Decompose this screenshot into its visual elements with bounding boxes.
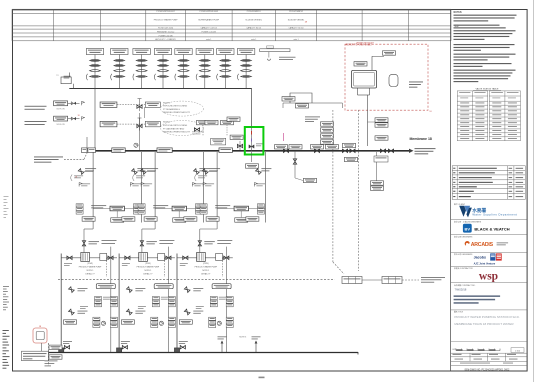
Arcadis symbol bbox=[465, 241, 470, 246]
diagonal valve U2R bbox=[194, 169, 200, 175]
WSD logo mark bbox=[459, 206, 472, 218]
feed label text block 1 (polishing water supply) bbox=[25, 105, 47, 108]
on-bus junction box A0 bbox=[82, 148, 88, 153]
strainer bracket T4 bbox=[154, 74, 155, 80]
diagonal valve U3R bbox=[256, 169, 262, 175]
riser tag L3 bbox=[204, 240, 215, 243]
svg-text:BV: BV bbox=[465, 227, 471, 232]
strainer bracket T2 bbox=[111, 74, 112, 80]
membrane tank outer bbox=[352, 70, 377, 88]
red tick in green box bbox=[251, 131, 253, 135]
bottom valve group 3 bbox=[180, 346, 185, 349]
membrane leg pipe bbox=[367, 95, 369, 146]
flow element T4 bbox=[158, 75, 169, 77]
pump suction valve L1 bbox=[67, 256, 72, 259]
wires central box U1 bbox=[93, 208, 110, 210]
check valve T3c bbox=[136, 70, 147, 72]
low tag L1 bbox=[64, 320, 77, 324]
tag right of green valve bbox=[256, 143, 263, 146]
svg-text:18: 18 bbox=[75, 177, 77, 179]
membrane tank bottom stubs bbox=[357, 88, 359, 95]
svg-text:POWER: 200 kW: POWER: 200 kW bbox=[159, 35, 173, 37]
wires central box U2 bbox=[155, 208, 172, 210]
diag valve row2 L3 bbox=[184, 287, 190, 293]
bottom valve group 1 bbox=[64, 346, 69, 349]
pump unit tag box T4 bbox=[154, 49, 171, 55]
tank to bus pipe bbox=[41, 343, 43, 351]
central control box U1 bbox=[110, 206, 124, 211]
bottom riser 2 bbox=[255, 341, 257, 352]
small bowtie below tags bbox=[194, 128, 199, 131]
pump suction valve L3 bbox=[183, 256, 188, 259]
flow element T6 bbox=[199, 75, 210, 77]
svg-text:PRODUCT WATER PUMP: PRODUCT WATER PUMP bbox=[79, 266, 102, 269]
check valve T4c bbox=[158, 70, 169, 72]
instrument stack U1R bbox=[133, 204, 140, 214]
svg-text:units 1: units 1 bbox=[206, 38, 211, 41]
pump unit tag box T6 bbox=[196, 49, 213, 55]
bottom riser 1 bbox=[221, 341, 223, 352]
overhead crane rail bbox=[260, 49, 290, 52]
flow element T8 bbox=[241, 75, 252, 77]
hanger below cluster1 bbox=[294, 151, 296, 178]
svg-text:NOTE 1: NOTE 1 bbox=[87, 270, 94, 272]
feed label text block 2 (polishing water supply) bbox=[25, 120, 47, 123]
hypochlorite label U2 bbox=[153, 204, 168, 207]
instrument stack mid L1 bbox=[95, 297, 102, 307]
svg-text:NOTE 1: NOTE 1 bbox=[163, 102, 171, 104]
svg-text:圖號 DWG NO. P1234/2021/WPD01: 圖號 DWG NO. P1234/2021/WPD01 0002 bbox=[465, 368, 510, 372]
instrument stack mid L2 bbox=[152, 297, 159, 307]
membrane side tags bbox=[409, 81, 423, 84]
control valve T2b bbox=[114, 64, 125, 66]
wire drop column T4 bbox=[162, 55, 164, 89]
riser top valve L2 bbox=[141, 240, 143, 253]
flow element T3 bbox=[136, 75, 147, 77]
note row right tag pair B bbox=[221, 120, 234, 124]
flag U3R bbox=[254, 183, 257, 187]
svg-text:NO FLOW: NO FLOW bbox=[57, 124, 65, 126]
svg-text:DETAIL 77: DETAIL 77 bbox=[143, 273, 152, 276]
bottom valve group 2 bbox=[122, 346, 127, 349]
AJC red block bbox=[496, 253, 502, 260]
svg-text:NOTE 1: NOTE 1 bbox=[144, 270, 151, 272]
check valve T6c bbox=[199, 70, 210, 72]
isolation valve T4a bbox=[158, 59, 169, 61]
flag U1R bbox=[130, 183, 133, 187]
flag marker feed 1 bbox=[82, 101, 85, 105]
svg-text:PRODUCT WATER PUMP: PRODUCT WATER PUMP bbox=[137, 266, 160, 269]
dashed bypass L1 bbox=[106, 258, 108, 277]
svg-text:7/WSD/18: 7/WSD/18 bbox=[455, 287, 467, 291]
hypochlorite label U1 bbox=[91, 204, 106, 207]
strainer bracket T6 bbox=[196, 74, 197, 80]
tank outlet tags bbox=[49, 345, 62, 349]
seal loop tags bbox=[282, 97, 295, 101]
svg-text:DETAIL 77: DETAIL 77 bbox=[85, 273, 94, 276]
dashed bypass L3 bbox=[221, 258, 223, 277]
divider logos 3 bbox=[451, 251, 527, 253]
svg-text:Water Supplies Department: Water Supplies Department bbox=[472, 212, 517, 216]
svg-text:HYPOCHLORITE DOSING: HYPOCHLORITE DOSING bbox=[163, 106, 188, 108]
Black and Veatch logo square bbox=[463, 224, 472, 233]
bus cluster 1 valves bbox=[283, 149, 288, 152]
bottom collection bus bbox=[46, 352, 358, 354]
diagonal valve U1R bbox=[132, 169, 138, 175]
control valve T8b bbox=[241, 64, 252, 66]
bottom junction block L3 bbox=[174, 348, 179, 353]
note row right tag pair A bbox=[197, 120, 210, 124]
wire pump row L1 bbox=[61, 257, 117, 259]
svg-text:NOTE 2: NOTE 2 bbox=[163, 122, 171, 124]
wire bus drop right to green area bbox=[251, 88, 253, 127]
membrane tank inner bbox=[354, 72, 375, 86]
svg-text:1:100: 1:100 bbox=[515, 350, 521, 352]
bus end tick bbox=[357, 352, 359, 355]
isolation valve T1a bbox=[90, 59, 101, 61]
crane hook symbol bbox=[268, 52, 270, 58]
strainer bracket U2 bbox=[133, 175, 134, 182]
control valve T5b bbox=[178, 64, 189, 66]
UF dashed vertical A bbox=[332, 110, 334, 262]
bus cluster 2 bbox=[311, 145, 324, 149]
green box internal valve bbox=[251, 127, 253, 151]
flag marker feed 2 bbox=[82, 117, 85, 121]
misc labels group 3 bbox=[180, 262, 188, 265]
strainer bracket T7 bbox=[217, 74, 218, 80]
instrument stack U2L bbox=[138, 204, 145, 214]
right vertical pipe L1 bbox=[110, 247, 112, 352]
isolation valve T7a bbox=[220, 59, 231, 61]
equipment header table bbox=[12, 9, 451, 41]
pump unit tag box T5 bbox=[175, 49, 192, 55]
sample box A bbox=[342, 277, 362, 284]
svg-text:SUPERNATANT PUMP: SUPERNATANT PUMP bbox=[198, 19, 220, 22]
hypochlorite label U3 bbox=[215, 204, 230, 207]
wire pump row L3 bbox=[177, 257, 233, 259]
flow element T5 bbox=[178, 75, 189, 77]
sampling pump circle L1 bbox=[101, 321, 105, 325]
svg-text:(P5W): (P5W) bbox=[87, 263, 93, 265]
cluster 4 below-bus box bbox=[374, 156, 388, 162]
svg-text:NOTES:: NOTES: bbox=[454, 12, 463, 14]
central control box U3 bbox=[234, 206, 248, 211]
stacked connection tags bbox=[321, 122, 334, 126]
wire pair verticals group U2 bbox=[154, 152, 156, 223]
misc labels group 1 bbox=[64, 262, 72, 265]
flag U2R bbox=[192, 183, 195, 187]
diag valve row2 L1 bbox=[69, 287, 75, 293]
svg-text:P123/4/5/WPD01/0003: P123/4/5/WPD01/0003 bbox=[200, 11, 218, 13]
isolation valve T3a bbox=[136, 59, 147, 61]
svg-text:ARCADIS: ARCADIS bbox=[471, 242, 494, 248]
bus cluster 4 valves bbox=[380, 149, 385, 152]
svg-text:units 1: units 1 bbox=[251, 38, 256, 41]
cluster 3 tags above bbox=[343, 143, 356, 147]
svg-text:units 1: units 1 bbox=[293, 38, 298, 41]
flow element T7 bbox=[220, 75, 231, 77]
AJC blue block bbox=[490, 253, 495, 260]
flow element T1 bbox=[90, 75, 101, 77]
title divider bbox=[451, 309, 527, 311]
strainer bracket U3 bbox=[195, 175, 196, 182]
riser tag L2 bbox=[146, 240, 157, 243]
svg-text:比例: 比例 bbox=[453, 348, 457, 351]
right column divider bbox=[450, 9, 452, 371]
svg-text:PRESSURE: 3.10 bar: PRESSURE: 3.10 bar bbox=[157, 32, 175, 34]
connecting elbow pipe group 1 bbox=[92, 223, 94, 230]
pump unit tag box T2 bbox=[111, 49, 128, 55]
strainer bracket T1 bbox=[86, 74, 87, 80]
riser tag L1 bbox=[89, 240, 100, 243]
on-bus junction box A bbox=[112, 148, 125, 153]
sampling label bbox=[421, 276, 445, 279]
instrument stack U3L bbox=[200, 204, 207, 214]
svg-text:VALVE STATUS TABLE: VALVE STATUS TABLE bbox=[476, 88, 500, 91]
lower group L3: left vertical pipe bbox=[176, 254, 178, 353]
svg-text:P123/4/5/WBP01: P123/4/5/WBP01 bbox=[247, 11, 261, 13]
on-bus junction box B bbox=[157, 148, 172, 153]
svg-text:PRODUCT WATER PUMP: PRODUCT WATER PUMP bbox=[154, 19, 178, 22]
pump casing box L3 bbox=[216, 254, 223, 261]
dashed temporary supply line bbox=[64, 158, 84, 160]
dashed bypass L2 bbox=[163, 258, 165, 277]
crane label text bbox=[279, 56, 296, 59]
spec text L3 bbox=[217, 239, 232, 242]
isolation valve T8a bbox=[241, 59, 252, 61]
instrument stack low L2 bbox=[151, 317, 158, 327]
outer sheet edge line right bbox=[533, 0, 535, 382]
UF/MBR retrofit red dashed boundary bbox=[345, 44, 428, 110]
svg-text:CAPACITY: 4.19 m3: CAPACITY: 4.19 m3 bbox=[201, 27, 217, 30]
sample dashed tail bbox=[402, 279, 419, 281]
below-bus tags left bbox=[45, 360, 58, 363]
flow element T2 bbox=[114, 75, 125, 77]
wire drop column T2 bbox=[118, 55, 120, 89]
wire drop column T7 bbox=[224, 55, 226, 89]
svg-text:wsp: wsp bbox=[479, 271, 498, 283]
main product water bus bbox=[88, 150, 409, 152]
wire feed 2 bbox=[68, 118, 80, 120]
sheet margin tick marks left edge bbox=[4, 195, 9, 198]
temporary supply label text bbox=[34, 156, 63, 159]
drop below green valve bbox=[251, 152, 253, 162]
pump motor unit L1 bbox=[81, 253, 90, 262]
divider logos 1 bbox=[451, 219, 527, 221]
wire vert 135 bbox=[139, 113, 141, 151]
product water distribution label bbox=[415, 147, 436, 150]
svg-text:FLOW: 5475 m3/d: FLOW: 5475 m3/d bbox=[158, 28, 173, 30]
wire tank drop bbox=[48, 343, 50, 366]
control valve T6b bbox=[199, 64, 210, 66]
svg-text:ANTI-/DUTY: +STANDBY: ANTI-/DUTY: +STANDBY bbox=[155, 38, 176, 41]
instrument stack mid L3 bbox=[210, 297, 217, 307]
svg-text:PT LABORATORY AND: PT LABORATORY AND bbox=[163, 127, 185, 130]
wire vert 95 bbox=[94, 88, 96, 151]
pump motor unit L3 bbox=[197, 253, 206, 262]
pump unit tag box T3 bbox=[133, 49, 150, 55]
hanger tags cluster1 bbox=[304, 178, 317, 182]
svg-text:PRODUCT WATER PUMPING STATION: PRODUCT WATER PUMPING STATION P.&I.D. bbox=[454, 315, 519, 319]
low tag L2 bbox=[121, 320, 134, 324]
low tag L3 bbox=[179, 320, 192, 324]
strainer bracket T8 bbox=[237, 74, 238, 80]
svg-text:PT DEGASSING &: PT DEGASSING & bbox=[163, 108, 181, 111]
riser top valve L1 bbox=[83, 240, 85, 253]
cluster 4 tag above bbox=[375, 136, 388, 140]
discharge valve L1 bbox=[108, 256, 113, 259]
valve status table left bbox=[457, 91, 488, 141]
bottom junction block L1 bbox=[59, 348, 64, 353]
main bus arrowhead bbox=[409, 149, 414, 153]
membrane leg tags bbox=[375, 118, 388, 122]
scale bar bbox=[456, 349, 500, 351]
sample wire between bbox=[362, 279, 382, 281]
check valve T8c bbox=[241, 70, 252, 72]
right instrument stack L3 bbox=[226, 297, 233, 307]
tank label box bbox=[22, 351, 49, 361]
svg-text:SLUDGE VESSEL: SLUDGE VESSEL bbox=[288, 20, 305, 22]
info grid bbox=[451, 353, 527, 365]
riser from crane feed box bbox=[61, 77, 71, 84]
diag valve row3 L3 bbox=[184, 309, 190, 315]
svg-text:Jacobs: Jacobs bbox=[474, 256, 486, 260]
seal loop lower tag bbox=[296, 104, 309, 108]
connecting elbow pipe group 3 bbox=[216, 223, 218, 230]
svg-text:18: 18 bbox=[77, 115, 79, 117]
instrument stack U2R bbox=[195, 204, 202, 214]
wire M2 bbox=[117, 123, 152, 125]
sampling tag box M2a bbox=[100, 121, 117, 126]
pink riser mark bbox=[283, 133, 285, 141]
svg-text:DETAIL 77: DETAIL 77 bbox=[201, 273, 210, 276]
central control box U2 bbox=[172, 206, 186, 211]
notes paragraph lines bbox=[454, 15, 517, 16]
svg-text:NO FLOW: NO FLOW bbox=[57, 109, 65, 111]
svg-text:(P5W): (P5W) bbox=[203, 263, 209, 265]
sampling pump circle L2 bbox=[159, 321, 163, 325]
pump casing box L2 bbox=[158, 254, 165, 261]
svg-text:P123/4/5/WBP02: P123/4/5/WBP02 bbox=[289, 11, 303, 13]
divider logos 4 bbox=[451, 265, 527, 267]
wires central box U3 bbox=[217, 208, 234, 210]
bus tag extra B bbox=[326, 145, 339, 149]
instrument stack low L1 bbox=[93, 317, 100, 327]
wire drop column T8 bbox=[245, 55, 247, 89]
aeration bracket bbox=[389, 74, 398, 86]
cluster 3 tags below bbox=[345, 157, 358, 161]
bus cluster 1 tags bbox=[275, 145, 288, 149]
divider logos 5 bbox=[451, 282, 527, 284]
svg-text:PRODUCT WATER PUMP: PRODUCT WATER PUMP bbox=[195, 266, 218, 269]
strainer bracket T5 bbox=[175, 74, 176, 80]
svg-text:P123/4/5/WPD01/0002: P123/4/5/WPD01/0002 bbox=[156, 11, 174, 13]
top distribution bus bbox=[69, 88, 251, 90]
valve status table right bbox=[489, 91, 520, 141]
pump unit tag box T7 bbox=[217, 49, 234, 55]
lower group L1: left vertical pipe bbox=[60, 254, 62, 353]
vessel tag box mid bbox=[211, 138, 226, 145]
sampling tag box M1a bbox=[100, 102, 117, 107]
svg-text:HYPOCHLORITE DOSING: HYPOCHLORITE DOSING bbox=[163, 125, 188, 127]
control valve T1b bbox=[90, 64, 101, 66]
control valve T7b bbox=[220, 64, 231, 66]
long dashed sample header line bbox=[58, 278, 335, 280]
pump circle on bus bbox=[134, 143, 138, 147]
tag box feed 2 bbox=[54, 116, 68, 121]
connecting elbow pipe group 2 bbox=[154, 223, 156, 230]
dashed drops below tags bbox=[202, 125, 204, 136]
flag U3L bbox=[203, 183, 206, 187]
svg-text:CAPACITY: 80 m3: CAPACITY: 80 m3 bbox=[289, 27, 304, 30]
check valve T2c bbox=[114, 70, 125, 72]
svg-text:AJC Joint Venture: AJC Joint Venture bbox=[474, 262, 496, 265]
right instrument stack L2 bbox=[168, 297, 175, 307]
wire pair verticals group U1 bbox=[92, 152, 94, 223]
instrument stack U3R bbox=[257, 204, 264, 214]
isolation valve T5a bbox=[178, 59, 189, 61]
bus tag extra A bbox=[289, 145, 302, 149]
check valve T1c bbox=[90, 70, 101, 72]
membrane top pipe bbox=[371, 56, 373, 70]
sampling tag box M2b bbox=[145, 121, 160, 126]
discharge valve L2 bbox=[166, 256, 171, 259]
cross valve M1 bbox=[137, 105, 142, 108]
discharge valve L3 bbox=[224, 256, 229, 259]
isolation valve T6a bbox=[199, 59, 210, 61]
bottom junction block L2 bbox=[117, 348, 122, 353]
svg-text:UF/MBR RETROFIT: UF/MBR RETROFIT bbox=[356, 43, 375, 45]
svg-text:SLUDGE VESSEL: SLUDGE VESSEL bbox=[245, 20, 262, 22]
svg-text:BLACK & VEATCH: BLACK & VEATCH bbox=[474, 226, 509, 231]
control valve T3b bbox=[136, 64, 147, 66]
wire drop column T5 bbox=[183, 55, 185, 89]
check valve T5c bbox=[178, 70, 189, 72]
instrument stack low L3 bbox=[209, 317, 216, 327]
bus cluster 3 valves bbox=[342, 149, 347, 152]
pump motor unit L2 bbox=[139, 253, 148, 262]
scale value cell bbox=[511, 348, 524, 353]
svg-text:REDEVELOPMENT FACILITY: REDEVELOPMENT FACILITY bbox=[163, 131, 191, 134]
svg-text:NOTE 3: NOTE 3 bbox=[239, 337, 246, 339]
seal loop bbox=[290, 93, 312, 103]
riser top valve L3 bbox=[199, 240, 201, 253]
cross valve M2 bbox=[137, 124, 142, 127]
Arcadis side text bbox=[497, 241, 509, 244]
control valve T4b bbox=[158, 64, 169, 66]
svg-text:REDEVELOPMENT FACILITY: REDEVELOPMENT FACILITY bbox=[163, 111, 191, 114]
svg-text:POWER: 0.25 kW: POWER: 0.25 kW bbox=[202, 32, 217, 34]
wire vert 144.7 bbox=[144, 107, 146, 118]
strainer bracket T3 bbox=[133, 74, 134, 80]
wire drop column T6 bbox=[204, 55, 206, 89]
spec text L2 bbox=[159, 239, 174, 242]
isolation valve T2a bbox=[114, 59, 125, 61]
diag valve row3 L1 bbox=[69, 309, 75, 315]
strainer bracket U1 bbox=[71, 175, 72, 182]
membrane top tag B bbox=[354, 62, 367, 66]
flag U2L bbox=[141, 183, 144, 187]
svg-text:MEMBRANE TRAIN 18 PRODUCT WATE: MEMBRANE TRAIN 18 PRODUCT WATER bbox=[454, 322, 514, 326]
pump unit tag box T1 bbox=[86, 49, 103, 55]
green markup rectangle bbox=[245, 127, 264, 155]
pump casing box L1 bbox=[100, 254, 107, 261]
check valve feed 1 bbox=[71, 102, 76, 105]
wire drop column T3 bbox=[141, 55, 143, 89]
title box divider line bbox=[451, 341, 527, 343]
UF dashed elbow A bbox=[333, 262, 344, 274]
sampling pump circle L3 bbox=[217, 321, 221, 325]
